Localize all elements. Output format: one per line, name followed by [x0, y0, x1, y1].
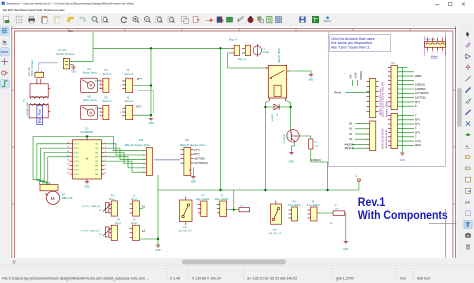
icon: place image: [465, 233, 470, 238]
wire power stubs: [352, 80, 357, 86]
svg-text:A(**): A(**): [194, 149, 199, 152]
icon: delete tool: [466, 245, 470, 250]
svg-text:Reg.~Switch: Reg.~Switch: [215, 198, 229, 201]
svg-text:IN6: IN6: [95, 165, 98, 167]
svg-text:28byj-48_Stepper~Driver: 28byj-48_Stepper~Driver: [125, 144, 151, 147]
svg-text:3: 3: [105, 151, 106, 153]
icon: graphic line: [466, 211, 471, 216]
svg-text:2: 2: [143, 155, 144, 157]
wire U1 out loop 3: [44, 152, 69, 184]
icon: zoom out: [144, 17, 150, 23]
svg-text:Add text: Add text: [417, 276, 430, 280]
wire Vin drop: [92, 32, 94, 48]
svg-text:✎: ✎: [258, 19, 261, 23]
icon: save netlist: [300, 17, 306, 23]
switch SW? dip 2: [270, 204, 281, 224]
icon: units inches: [2, 40, 7, 45]
wire R auto to gnd: [345, 213, 346, 242]
title bar: [0, 0, 474, 7]
svg-text:1N4007: 1N4007: [272, 113, 274, 121]
icon: zoom selection: [168, 17, 174, 23]
svg-text:File C:\Users\Jay pc\Documents: File C:\Users\Jay pc\Documents\pcb desig…: [2, 276, 149, 280]
svg-text:A5(SCL): A5(SCL): [345, 147, 355, 150]
svg-text:DC/DC 16 Input: DC/DC 16 Input: [57, 53, 75, 56]
svg-text:GND: GND: [343, 249, 348, 251]
svg-text:Auto~Switch: Auto~Switch: [307, 204, 321, 207]
svg-text:Pot-2: Pot-2: [131, 222, 137, 225]
svg-text:11(**/MOSI): 11(**/MOSI): [194, 162, 207, 165]
svg-text:7: 7: [105, 168, 106, 170]
svg-text:5(**): 5(**): [415, 123, 420, 126]
svg-text:R_POT_TRIM_US: R_POT_TRIM_US: [81, 230, 100, 232]
svg-text:Motor_Servo: Motor_Servo: [83, 99, 97, 102]
svg-text:17: 17: [67, 147, 69, 149]
svg-text:IN2: IN2: [95, 148, 98, 150]
wire J6s to supply: [133, 114, 151, 116]
svg-text:Servo~2: Servo~2: [125, 100, 135, 103]
svg-text:16: 16: [67, 151, 69, 153]
diode D? 1N4007: [274, 104, 279, 110]
wire U1 out loop 4: [48, 157, 70, 185]
wire COM left loop: [33, 136, 40, 184]
svg-text:like “Uno” board Rev 3.: like “Uno” board Rev 3.: [331, 46, 370, 50]
svg-text:5: 5: [105, 160, 106, 162]
svg-text:1 Amp: 1 Amp: [263, 51, 270, 54]
svg-text:GND: GND: [191, 181, 196, 183]
icon: net label: [465, 143, 470, 148]
svg-text:Place: Place: [20, 8, 27, 12]
ground GND auto: [344, 242, 348, 244]
svg-text:GND: GND: [400, 160, 405, 162]
svg-text:File: File: [3, 8, 8, 12]
svg-text:RELAY_SPDT: RELAY_SPDT: [278, 47, 281, 62]
wire main 5V rail: [158, 189, 359, 191]
vertical scrollbar: [457, 26, 463, 258]
icon: place power port: [466, 65, 470, 70]
svg-text:OUT7: OUT7: [74, 170, 79, 172]
svg-text:A0 A1 A2 A3 A4 A5: A0 A1 A2 A3 A4 A5: [382, 128, 385, 149]
svg-text:GND: GND: [71, 72, 76, 74]
grid dots: [11, 29, 456, 252]
resistor RV1 trimmer: [105, 203, 109, 213]
svg-text:IN4: IN4: [95, 157, 98, 159]
svg-text:Eeschema — robo arm shield.sch: Eeschema — robo arm shield.sch [/] — C:\…: [7, 2, 135, 6]
page limits guide: [328, 31, 445, 167]
icon: ERC ladybug: [248, 16, 253, 23]
ground GND servo column: [149, 119, 153, 121]
svg-text:OUT8: OUT8: [74, 174, 79, 176]
svg-text:IN5: IN5: [95, 161, 98, 163]
svg-text:IN7: IN7: [95, 170, 98, 172]
svg-text:Grid for Arduino that uses: Grid for Arduino that uses: [331, 37, 374, 41]
left toolbar: [0, 26, 10, 258]
wire row1 spare: [138, 90, 153, 113]
wire diode link: [265, 106, 290, 108]
wire digital low fanout: [398, 116, 415, 146]
wire rail end riser: [358, 181, 360, 190]
svg-text:5: 5: [143, 168, 144, 170]
svg-text:6: 6: [143, 172, 144, 174]
svg-text:12: 12: [67, 168, 69, 170]
svg-text:OUT5: OUT5: [74, 161, 79, 163]
icon: units mm (selected): [1, 48, 10, 56]
svg-text:Tools: Tools: [36, 8, 43, 12]
junction rail right: [326, 189, 328, 191]
svg-text:IN8: IN8: [95, 174, 98, 176]
svg-text:1(Tx): 1(Tx): [415, 140, 421, 143]
ground GND under J10: [192, 167, 194, 176]
icon: wire entry: [465, 99, 470, 104]
svg-text:0(Rx): 0(Rx): [415, 144, 421, 147]
wire emitter to gnd: [292, 143, 295, 153]
svg-text:M: M: [90, 111, 93, 115]
svg-text:Servo~1: Servo~1: [103, 73, 113, 76]
icon: redraw: [121, 17, 127, 23]
junction rail left: [219, 189, 221, 191]
svg-text:5VDC 16 Input: 5VDC 16 Input: [31, 60, 34, 76]
svg-text:A: A: [465, 143, 468, 148]
svg-text:4: 4: [143, 163, 144, 165]
icon: redo faded: [80, 17, 86, 22]
icon: import sheet pin: [465, 188, 470, 193]
icon: find: [92, 17, 98, 23]
svg-text:28byj-48_Stepper~Driver: 28byj-48_Stepper~Driver: [180, 144, 206, 147]
icon: place wire: [465, 76, 470, 81]
icon: zoom in: [133, 17, 139, 23]
svg-text:GND: GND: [289, 162, 294, 164]
svg-text:3(**): 3(**): [136, 104, 141, 108]
icon: bus entry: [465, 110, 470, 115]
icon: find replace: [101, 16, 108, 22]
svg-text:8: 8: [105, 173, 106, 175]
wire left gnd column: [157, 175, 159, 245]
svg-text:X 130.80 Y 142.24: X 130.80 Y 142.24: [192, 276, 221, 280]
icon: paste: [42, 16, 47, 23]
svg-text:J10: J10: [185, 139, 190, 142]
svg-text:Z 1.46: Z 1.46: [170, 276, 180, 280]
icon: leave sheet: [193, 17, 199, 23]
svg-text:Auto~Switch: Auto~Switch: [288, 204, 302, 207]
svg-text:ULN2003D: ULN2003D: [81, 131, 94, 134]
icon: free angle wires (selected): [1, 80, 10, 88]
icon: print: [28, 16, 34, 22]
transistor Q? PN2222A: [287, 130, 299, 142]
wire bus link P10 J10: [154, 159, 180, 161]
svg-text:GND: GND: [84, 186, 89, 188]
wire J2 to gnd column: [140, 238, 159, 240]
svg-text:OUT2: OUT2: [74, 148, 79, 150]
svg-text:10(**/SS): 10(**/SS): [415, 97, 426, 100]
svg-text:1: 1: [105, 142, 106, 144]
junction pot gnd: [157, 238, 159, 240]
svg-text:GND: GND: [308, 79, 313, 81]
svg-text:Motor_Servo: Motor_Servo: [83, 72, 97, 75]
transformer T1: [29, 79, 50, 118]
icon: sheet pin: [465, 201, 471, 205]
icon: netlist: [275, 17, 281, 23]
svg-text:Reset: Reset: [335, 92, 342, 95]
svg-text:13: 13: [67, 164, 69, 166]
svg-text:in: in: [2, 40, 6, 45]
wire U1 out loop 1: [37, 144, 70, 185]
svg-text:J6 ~Vin: J6 ~Vin: [58, 49, 67, 52]
svg-text:18: 18: [67, 142, 69, 144]
svg-text:With Components: With Components: [358, 210, 448, 222]
svg-text:1: 1: [143, 151, 144, 153]
svg-text:the same pin disposition: the same pin disposition: [331, 41, 372, 45]
svg-text:Reg. +/-: Reg. +/-: [238, 58, 247, 61]
motor M1 servo: [81, 68, 101, 92]
global label RW_Pwr: [37, 105, 43, 124]
svg-text:SW?: SW?: [183, 227, 189, 229]
icon: text tool selected: [464, 220, 472, 228]
svg-text:dx -132.10 dy -92.23 dist 146.: dx -132.10 dy -92.23 dist 146.02: [247, 276, 297, 280]
transistor array U1 body: [86, 136, 88, 139]
wire gnd column headers: [401, 68, 403, 154]
svg-text:R_POT_TRIM_US: R_POT_TRIM_US: [82, 206, 101, 208]
svg-text:SW_DIP_x01: SW_DIP_x01: [179, 230, 193, 232]
svg-text:BACK: BACK: [324, 20, 331, 23]
connector P power in: [35, 71, 44, 78]
svg-text:RESET 3V3 5V GND GND: RESET 3V3 5V GND GND: [380, 89, 382, 115]
resistor R reg: [239, 208, 250, 212]
svg-text:View: View: [14, 8, 20, 12]
icon: grid visibility (selected): [1, 27, 10, 35]
svg-text:A4(SDA): A4(SDA): [345, 143, 355, 146]
svg-text:13(SCK): 13(SCK): [311, 158, 321, 162]
connector power header: [370, 78, 376, 117]
svg-text:M: M: [90, 84, 93, 88]
svg-text:6: 6: [105, 164, 106, 166]
svg-text:B(**): B(**): [194, 153, 199, 156]
svg-text:14: 14: [67, 160, 69, 162]
icon: undo: [67, 16, 73, 22]
junction servo column: [150, 47, 152, 49]
connector J6s Servo 2: [120, 96, 135, 119]
svg-text:6(**): 6(**): [415, 119, 420, 122]
icon: paste faded: [54, 16, 60, 23]
icon: place symbol: [465, 54, 470, 59]
window controls: [436, 3, 440, 6]
svg-text:GND: GND: [149, 123, 154, 125]
wire relay left leg: [265, 101, 269, 191]
svg-text:12(MISO): 12(MISO): [415, 88, 426, 91]
svg-text:GND: GND: [155, 250, 160, 252]
ground GND transistor: [289, 153, 293, 155]
connector P4 Servo 1: [99, 69, 112, 92]
svg-text:Help: Help: [59, 8, 65, 12]
wire J4 to supply: [133, 85, 151, 87]
icon: zoom fit: [156, 17, 162, 23]
icon: cursor shape: [1, 58, 8, 65]
svg-text:PN2222A: PN2222A: [283, 134, 286, 144]
svg-text:Molex: Molex: [431, 54, 439, 58]
bus to power connector: [39, 63, 58, 72]
ground GND relay: [309, 75, 313, 77]
icon: junction: [465, 133, 470, 136]
icon: annotate arrow: [206, 18, 213, 21]
connector J8 regulator: [245, 45, 250, 55]
svg-text:3(**): 3(**): [415, 132, 420, 135]
svg-text:15: 15: [67, 155, 69, 157]
wire resistor to sck: [311, 149, 328, 190]
ground GND headers: [400, 153, 404, 155]
wire servo supply drop: [150, 48, 152, 117]
svg-text:Servo~2: Servo~2: [103, 100, 113, 103]
svg-text:Pot-1: Pot-1: [109, 198, 115, 201]
svg-text:9(**): 9(**): [415, 101, 420, 104]
svg-text:T: T: [466, 222, 470, 229]
icon: page settings: [16, 16, 22, 23]
icon: hierarchy navigator: [182, 16, 188, 23]
icon: hierarchical sheet: [465, 177, 470, 182]
wire J9 to R auto: [317, 212, 333, 214]
icon: footprint viewer: [226, 17, 233, 22]
wire COM to P10 pin1: [113, 136, 146, 150]
connector P2 digital low: [391, 114, 398, 149]
svg-text:A0 A1 A2 A3 A4 A5: A0 A1 A2 A3 A4 A5: [385, 129, 388, 148]
svg-text:230VAC 9VAC: 230VAC 9VAC: [26, 101, 29, 116]
svg-text:1: 1: [427, 52, 428, 54]
ground GND jack: [71, 67, 75, 69]
svg-text:Inspect: Inspect: [27, 8, 36, 12]
svg-text:IN3: IN3: [95, 152, 98, 154]
svg-text:OUT3: OUT3: [74, 152, 79, 154]
icon: hierarchical label: [465, 167, 471, 170]
fuse L1: [253, 46, 261, 55]
svg-text:SW?: SW?: [273, 229, 279, 231]
svg-text:M: M: [51, 196, 55, 201]
junction IC top pin: [86, 135, 88, 137]
wire J7 to R: [227, 209, 240, 211]
svg-text:Arduino_Shield: Arduino_Shield: [386, 100, 389, 117]
pin stubs U1: [70, 144, 105, 174]
svg-text:Edit: Edit: [8, 8, 13, 12]
wire reset: [346, 92, 370, 94]
svg-text:+5V: +5V: [350, 74, 353, 79]
wire Vin rail: [93, 47, 231, 49]
wire U1 out loop 2: [40, 148, 69, 184]
wire jack feed: [72, 48, 94, 61]
junction servo gnd: [150, 114, 152, 116]
svg-text:OUT4: OUT4: [74, 157, 79, 159]
wire relay NO to gnd: [290, 71, 312, 75]
wire rail drop to J7 resistor: [233, 190, 235, 210]
svg-text:28BYJ-48: 28BYJ-48: [62, 197, 73, 200]
ground GND pot column: [156, 245, 160, 247]
svg-text:RW_Pwr: RW_Pwr: [38, 108, 42, 123]
wire U1 in steps to P10: [105, 144, 147, 155]
junction servo row1: [150, 84, 152, 86]
junction J7R: [233, 209, 235, 211]
svg-text:POWER: POWER: [360, 71, 363, 80]
icon: place bus: [465, 87, 470, 92]
svg-text:OUT6: OUT6: [74, 165, 79, 167]
svg-text:2: 2: [432, 52, 433, 54]
connector analog header: [370, 121, 376, 151]
icon: back annotate: [324, 16, 331, 23]
svg-text:11(**/MOSI): 11(**/MOSI): [415, 92, 428, 95]
icon: hidden pins: [2, 71, 8, 75]
svg-text:OUT1: OUT1: [74, 144, 79, 146]
icon: highlight net: [466, 42, 471, 47]
wire relay right leg: [285, 101, 290, 130]
svg-text:SW_DIP_x01: SW_DIP_x01: [269, 233, 283, 235]
motor M2 servo: [81, 95, 101, 119]
icon: library browser: [217, 17, 223, 23]
node +5V pin: [358, 179, 361, 181]
top toolbar: [0, 13, 474, 26]
svg-text:+3.3V: +3.3V: [355, 72, 358, 79]
wire base to resistor: [299, 136, 311, 139]
resistor R base: [309, 139, 313, 149]
svg-text:3: 3: [437, 52, 438, 54]
svg-text:10(**/SS): 10(**/SS): [194, 158, 205, 161]
junction diode left: [264, 106, 266, 108]
svg-text:3: 3: [143, 159, 144, 161]
connector P6 Servo 2: [99, 96, 112, 119]
svg-text:Preferences: Preferences: [44, 8, 59, 12]
cursor crosshair: [429, 222, 456, 224]
svg-text:Rev.1: Rev.1: [358, 197, 386, 209]
icon: assign footprint: [258, 17, 264, 24]
svg-text:2: 2: [105, 147, 106, 149]
svg-text:mm: mm: [400, 276, 406, 280]
wire relay supply drop: [220, 48, 222, 190]
wire COM rail over IC: [33, 135, 113, 137]
right toolbar: [463, 26, 474, 258]
ground GND under U1: [86, 179, 88, 182]
svg-text:Vin: Vin: [69, 29, 73, 33]
horizontal scrollbar: [10, 258, 457, 265]
toolbar icons: [3, 16, 331, 23]
svg-text:Pot-1: Pot-1: [131, 198, 137, 201]
svg-text:2: 2: [237, 18, 239, 22]
svg-text:mm: mm: [1, 50, 7, 54]
svg-text:4: 4: [442, 52, 443, 54]
menu bar: [0, 7, 474, 14]
junction relay column: [219, 47, 221, 49]
sheet frame border: [12, 26, 456, 258]
wire analog stubs: [352, 124, 367, 149]
icon: run pcbnew: [312, 16, 318, 22]
icon: no connect: [466, 122, 470, 126]
icon: global label: [465, 156, 471, 159]
svg-text:grid 1,2700: grid 1,2700: [336, 276, 354, 280]
icon: annotate pencil: [237, 16, 243, 22]
connector J6 barrel jack: [57, 49, 75, 69]
svg-text:Pot-1: Pot-1: [115, 222, 121, 225]
svg-text:13(SCK): 13(SCK): [415, 84, 425, 87]
svg-text:IN1: IN1: [95, 144, 98, 146]
transistor M? 28BYJ-48 motor: [46, 191, 59, 204]
icon: select cursor: [466, 31, 469, 36]
svg-text:5(**): 5(**): [137, 77, 142, 81]
junction rail mid: [264, 189, 266, 191]
icon: BOM: [267, 17, 272, 23]
svg-text:Reg. +/-: Reg. +/-: [229, 39, 238, 42]
connector J4 Servo 1: [120, 69, 135, 92]
svg-text:AREF: AREF: [415, 75, 422, 78]
label A2: [140, 208, 144, 210]
wire jack pin2 to ground: [72, 65, 74, 67]
pin names U1: [74, 144, 99, 176]
connector stepper motor header: [40, 185, 58, 191]
switch SW? dip 1: [179, 200, 192, 222]
svg-text:DA: DA: [465, 201, 471, 205]
svg-text:11: 11: [67, 173, 69, 175]
schematic canvas: [10, 26, 457, 258]
